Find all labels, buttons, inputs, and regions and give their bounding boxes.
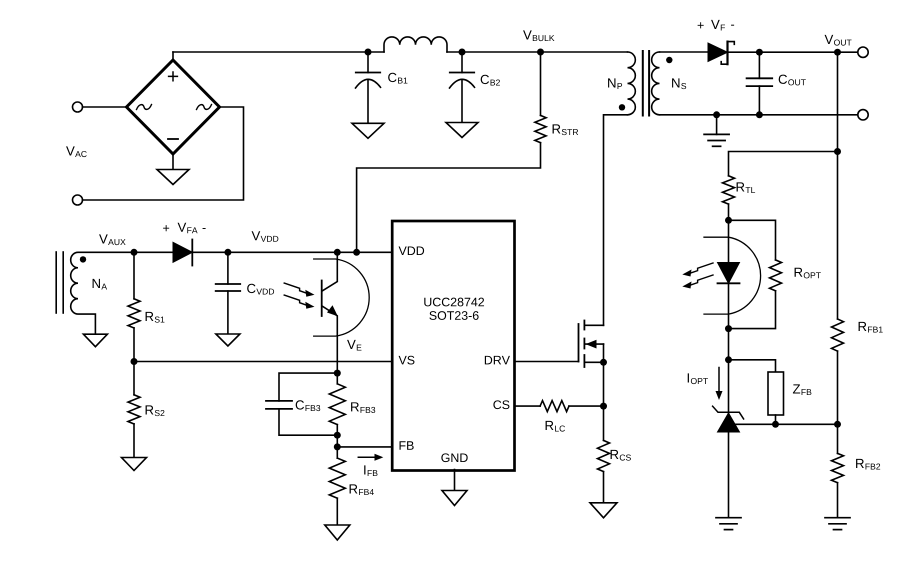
node secondary gnd (713, 111, 720, 118)
label NP (608, 78, 622, 89)
wire RLC to CS node (569, 405, 604, 407)
label +VFA- (163, 225, 169, 231)
ground CVDD (216, 334, 240, 346)
wire RS1 to VS node (133, 328, 135, 362)
aux winding NA (71, 252, 134, 334)
label VAUX (99, 234, 126, 245)
label IOPT (688, 373, 708, 384)
wire CS to RLC (515, 405, 540, 407)
label CB1 (388, 73, 407, 84)
pin VS (399, 356, 415, 365)
resistor RS2 (128, 395, 140, 424)
node COUT bottom (756, 111, 763, 118)
wire DRV to gate (515, 361, 579, 363)
transistor Q1 mosfet (578, 324, 580, 362)
resistor RCS (598, 440, 610, 471)
wire NS bottom rail (660, 114, 858, 116)
node VS divider (131, 358, 138, 365)
wire TL431 ref (729, 423, 838, 425)
NP phase dot (619, 104, 625, 110)
node FB (334, 443, 341, 450)
diode VF (708, 43, 728, 62)
label RFB1 (859, 322, 883, 333)
wire GND stub (454, 470, 456, 491)
wire VAC top to bridge left (83, 106, 127, 108)
node CS (600, 403, 607, 410)
wire VFA to VDD (192, 251, 391, 253)
bridge rectifier diamond (127, 60, 220, 154)
node source (600, 359, 607, 366)
ground below bridge (157, 170, 189, 185)
label VAC (66, 146, 87, 157)
ground RCS (590, 503, 617, 518)
wire NP bottom to drain (604, 115, 628, 325)
LED triangle (718, 263, 740, 284)
node ZFB tee (725, 356, 732, 363)
node opto collector (334, 249, 341, 256)
node LED anode (725, 217, 732, 224)
node RSTR vdd (353, 249, 360, 256)
ground NA (83, 334, 107, 347)
wire anode to LED (728, 220, 730, 262)
wire FB to IC (337, 446, 391, 448)
light arrow opto 1 (284, 283, 307, 293)
label RS2 (146, 405, 165, 416)
label CFB3 (296, 400, 321, 411)
resistor RS1 (128, 299, 140, 328)
transformer primary NP (628, 52, 636, 115)
label RFB3 (351, 402, 375, 413)
label VE (347, 340, 361, 351)
label RFB2 (856, 459, 880, 470)
optocoupler body arc right (704, 237, 761, 314)
wire RSTR to VDD node (357, 143, 541, 253)
NA core (55, 252, 57, 313)
terminal VOUT minus (858, 110, 868, 120)
wire tee to TL431 cathode (728, 360, 730, 413)
wire bridge bottom vertex to ground (172, 154, 174, 170)
shunt regulator TL431 (718, 413, 740, 432)
bridge plus sign (169, 72, 178, 81)
node ZFB bottom (772, 421, 779, 428)
ground CB2 (446, 123, 478, 138)
label CB2 (481, 75, 500, 86)
label VBULK (523, 30, 554, 41)
ground CB1 (352, 123, 384, 138)
wire anode to ROPT (729, 220, 776, 260)
wire top bus bridge to inductor (173, 51, 384, 53)
label NA (93, 279, 107, 290)
earth ground RFB2 (825, 517, 850, 519)
ground RS2 (122, 458, 147, 471)
wire VAUX to RS1 (133, 252, 135, 298)
wire node to RFB3 (336, 373, 338, 384)
wire bridge right vertex to VAC bottom (83, 107, 244, 200)
label VOUT (825, 35, 852, 46)
pin GND (441, 453, 467, 462)
wire to ZFB (729, 360, 776, 372)
resistor ROPT (770, 260, 782, 291)
label RTL (737, 182, 756, 193)
resistor RFB1 (832, 319, 844, 351)
NA phase dot (80, 256, 86, 262)
label RFB4 (350, 484, 374, 495)
node COUT top (756, 49, 763, 56)
wire diode to VOUT (728, 51, 858, 53)
capacitor CB1 (367, 52, 369, 73)
wire RTL to LED anode (728, 204, 730, 220)
opto transistor (321, 281, 323, 317)
light arrow LED 1 (690, 263, 713, 273)
resistor RFB4 (329, 458, 345, 498)
node CFB3 bottom (334, 432, 341, 439)
wire VS node to RS2 (133, 362, 135, 395)
wire VS to IC (134, 361, 391, 363)
wire CS node to RCS (603, 406, 605, 440)
light arrow opto 2 (284, 295, 307, 305)
resistor RFB2 (832, 453, 844, 482)
arrow IOPT (718, 368, 720, 394)
capacitor COUT (758, 52, 760, 78)
ground RFB4 (325, 525, 350, 540)
ground GND pin (442, 491, 467, 506)
label +VF- (698, 22, 704, 28)
node VBULK (537, 49, 544, 56)
wire rail to RTL (729, 152, 838, 176)
wire ROPT bottom (729, 291, 776, 329)
wire RS2 to ground (133, 424, 135, 458)
wire RFB4 to ground (336, 498, 338, 525)
pin DRV (485, 356, 510, 365)
label ZFB (793, 384, 811, 395)
NS phase dot (666, 57, 672, 63)
node RTL tee (834, 148, 841, 155)
bridge ac tilde right (197, 105, 212, 110)
earth ground TL431 (716, 517, 741, 519)
label UCC28742 (424, 298, 484, 307)
wire RFB3 to FB node (336, 425, 338, 459)
label ROPT (795, 268, 821, 279)
label VVDD (252, 231, 279, 242)
diode VFA (173, 242, 192, 262)
bridge minus sign (168, 138, 178, 140)
label COUT (779, 75, 806, 86)
terminal VOUT plus (858, 47, 868, 57)
terminal VAC top (73, 102, 83, 112)
capacitor CFB3 (279, 373, 337, 401)
optocoupler body arc left (314, 259, 369, 336)
label CVDD (247, 284, 274, 295)
resistor RTL (723, 176, 735, 204)
node VOUT (834, 49, 841, 56)
wire RFB1 to junction (837, 351, 839, 453)
wire VAUX to diode (134, 251, 173, 253)
wire ZFB bottom (775, 415, 777, 424)
resistor RSTR (535, 115, 546, 142)
impedance ZFB box (768, 372, 784, 415)
inductor LB (384, 37, 447, 52)
earth ground secondary (704, 133, 729, 135)
wire NS top to diode VF (660, 51, 709, 53)
wire RCS to ground (603, 472, 605, 503)
LED cathode bar (718, 282, 740, 284)
label NS (672, 78, 686, 89)
node divider junction (834, 421, 841, 428)
pin FB (400, 441, 414, 450)
transformer core (642, 51, 644, 116)
terminal VAC bottom (73, 195, 83, 205)
arrow IFB (358, 456, 376, 458)
wire sec gnd stub (716, 115, 718, 135)
node CB2 top (459, 49, 466, 56)
op-amp U1 UCC28742 box (392, 221, 514, 471)
label RS1 (146, 312, 165, 323)
bridge ac tilde left (137, 105, 152, 110)
transformer secondary NS (652, 52, 660, 115)
label IFB (364, 465, 377, 476)
label RCS (611, 450, 631, 461)
light arrow LED 2 (690, 275, 713, 285)
node CB1 top (365, 49, 372, 56)
wire TL431 to ground (728, 432, 730, 518)
node CVDD (224, 249, 231, 256)
wire bridge top vertex to top bus (172, 52, 174, 60)
wire RFB2 to ground (837, 483, 839, 518)
pin CS (493, 400, 509, 409)
wire LED cathode down (728, 283, 730, 360)
capacitor CVDD (227, 252, 229, 284)
capacitor CB2 (461, 52, 463, 73)
resistor RLC (540, 401, 569, 412)
label RSTR (553, 124, 579, 135)
wire inductor to NP (447, 51, 628, 53)
node LED cathode (725, 325, 732, 332)
resistor RFB3 (329, 384, 345, 425)
node emitter feedback (334, 370, 341, 377)
wire VOUT rail down (837, 52, 839, 319)
label RLC (546, 421, 565, 432)
pin VDD (399, 246, 425, 255)
node VAUX (131, 249, 138, 256)
wire VBULK down to RSTR (540, 52, 542, 115)
